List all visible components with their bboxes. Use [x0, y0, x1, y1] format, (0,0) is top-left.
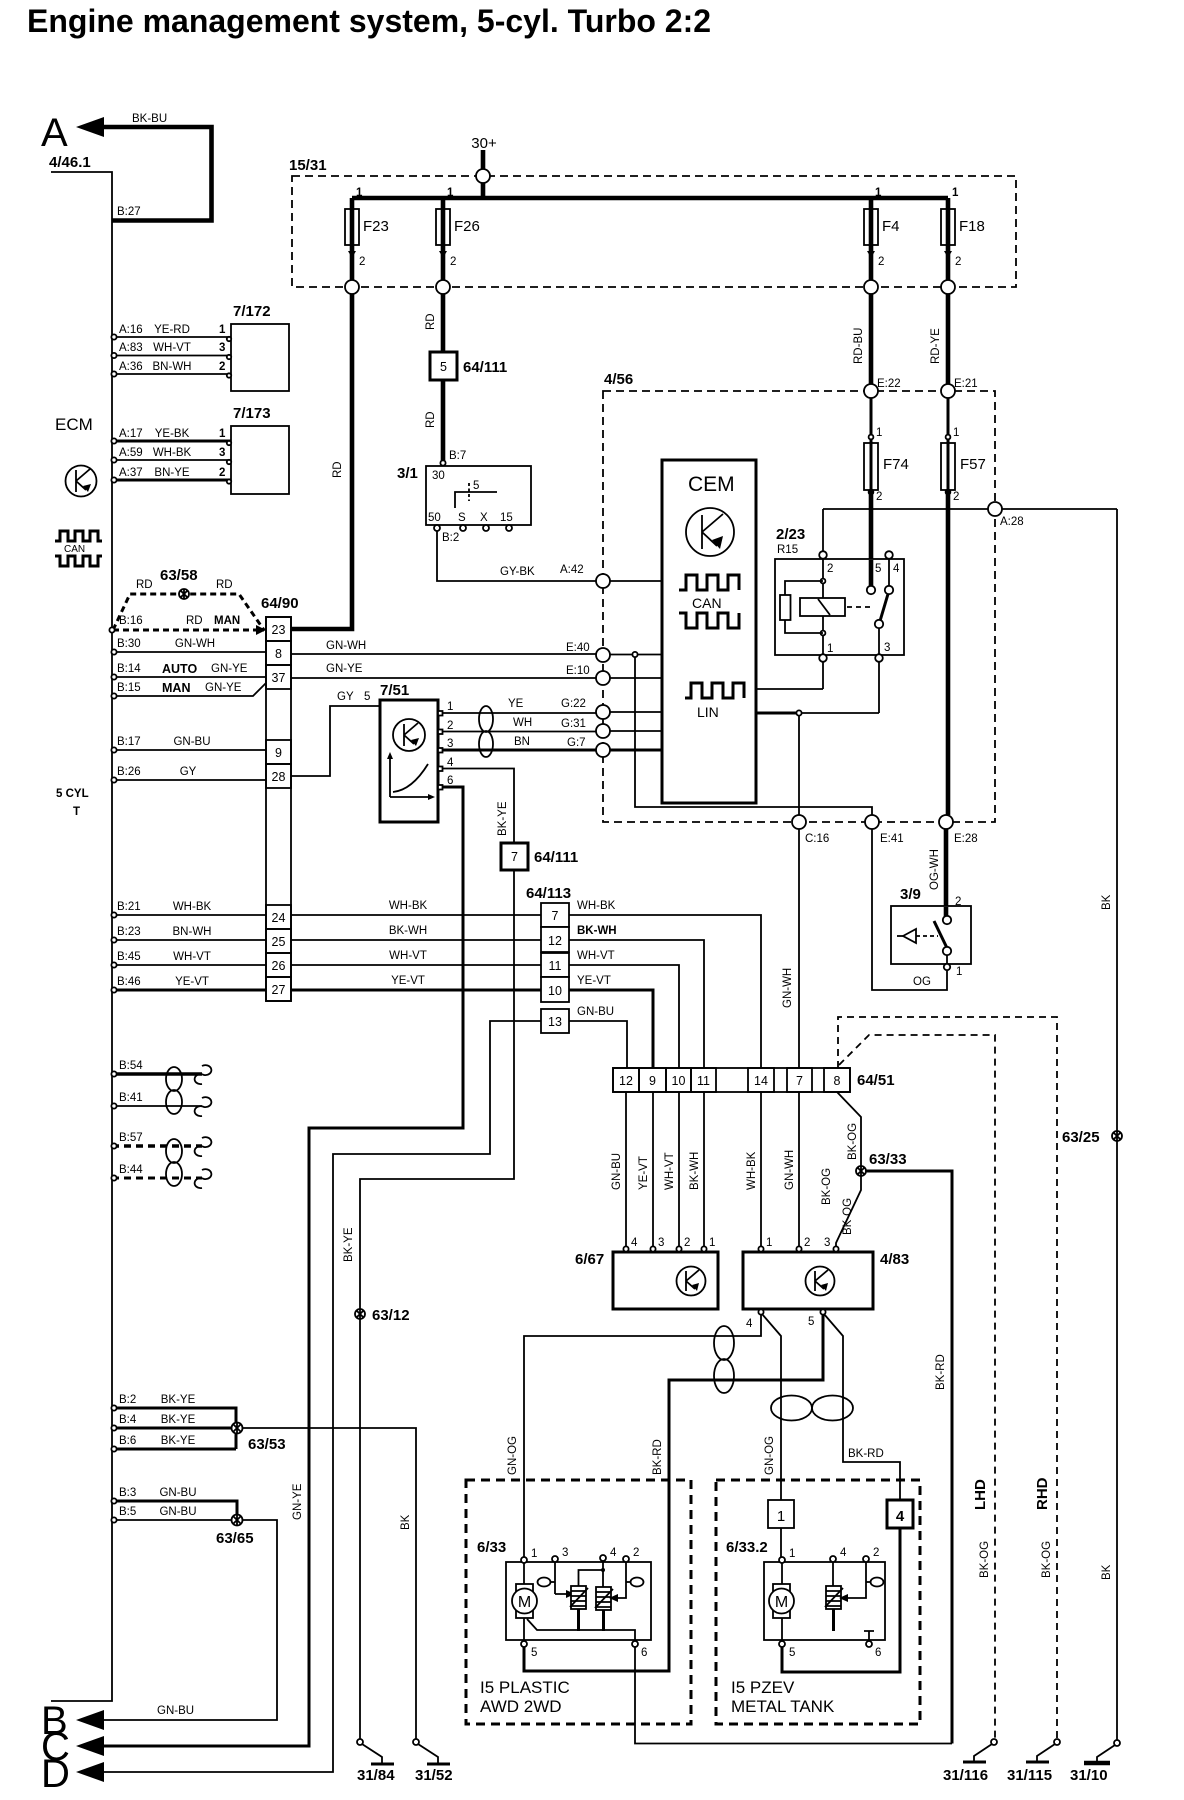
- svg-text:11: 11: [549, 959, 562, 973]
- svg-text:C:16: C:16: [805, 833, 829, 845]
- node C:16: [792, 815, 806, 829]
- wire B:15 MAN GN-YE: [112, 683, 266, 696]
- connector 64/111 pin 7: [501, 843, 528, 870]
- node E:28: [939, 815, 953, 829]
- svg-text:2: 2: [804, 1237, 810, 1249]
- svg-text:31/115: 31/115: [1007, 1767, 1052, 1784]
- svg-text:S: S: [458, 512, 466, 524]
- 6/33 fuel pump motor: [523, 1563, 525, 1584]
- wire GN-BU 64/113 pin13 to 64/51 pin12: [569, 1021, 627, 1068]
- wire YE-VT 64/90 pin27 to 64/113 pin10: [291, 989, 541, 992]
- relay pin 1: [819, 654, 827, 662]
- wire BK-RD box4 to 6/33.2 pin5: [782, 1528, 900, 1672]
- wire BK-YE 64/111 to splice 63/12 to ground: [360, 870, 514, 1742]
- ECM main line: [51, 172, 112, 1701]
- wire A:16 YE-RD pin 1: [112, 336, 231, 338]
- wire B:44 dashed: [112, 1177, 202, 1180]
- svg-text:28: 28: [272, 770, 286, 784]
- svg-text:1: 1: [956, 966, 962, 978]
- wire BK-WH 64/90 pin25 to 64/113 pin12: [291, 939, 541, 941]
- svg-text:63/25: 63/25: [1062, 1129, 1100, 1146]
- svg-text:G:31: G:31: [561, 718, 586, 730]
- 64/51 pin 10: [666, 1068, 691, 1092]
- wire GN-YE 7/51 pin6 to C arrow: [104, 787, 463, 1746]
- 64/113 pin 13: [541, 1009, 569, 1033]
- svg-text:CEM: CEM: [688, 473, 735, 496]
- wire BK-BU B:27: [102, 127, 212, 221]
- svg-text:1: 1: [219, 428, 226, 440]
- svg-text:BK-BU: BK-BU: [132, 113, 167, 125]
- svg-text:4/56: 4/56: [604, 371, 633, 388]
- svg-text:63/58: 63/58: [160, 567, 198, 584]
- 64/113 pin 11: [541, 953, 569, 977]
- svg-text:BK-RD: BK-RD: [652, 1439, 664, 1475]
- svg-text:WH: WH: [513, 717, 532, 729]
- svg-text:5: 5: [808, 1316, 814, 1328]
- svg-text:F23: F23: [363, 218, 389, 235]
- twisted pair horizontal: [771, 1396, 853, 1421]
- dashed link 64/51 to LHD line: [839, 1035, 995, 1742]
- wire A:59 WH-BK pin 3: [112, 459, 231, 461]
- svg-text:A:36: A:36: [119, 361, 143, 373]
- wire A:83 WH-VT pin 3: [112, 355, 231, 357]
- control unit CEM: [662, 460, 756, 803]
- svg-text:5: 5: [473, 480, 479, 492]
- svg-text:T: T: [73, 806, 80, 818]
- svg-text:3: 3: [658, 1237, 664, 1249]
- svg-text:Engine management system, 5-cy: Engine management system, 5-cyl. Turbo 2…: [27, 3, 711, 39]
- twisted pair B:57/B:44: [166, 1139, 182, 1186]
- svg-text:BK: BK: [1101, 894, 1113, 910]
- wire BK right side down to ground: [1116, 509, 1118, 1743]
- svg-text:23: 23: [272, 623, 286, 637]
- 6/33 pin 6: [632, 1641, 638, 1647]
- wire YE 7/51 pin1 to G:22: [443, 712, 597, 714]
- svg-text:30: 30: [432, 470, 445, 482]
- fuse F26: [441, 198, 446, 280]
- svg-text:A:83: A:83: [119, 342, 143, 354]
- svg-text:WH-VT: WH-VT: [153, 342, 191, 354]
- svg-text:F74: F74: [883, 456, 909, 473]
- ECM CAN symbol: [55, 531, 102, 566]
- svg-text:BK-YE: BK-YE: [161, 1414, 196, 1426]
- svg-text:E:10: E:10: [566, 665, 590, 677]
- 64/51 pin 14: [748, 1068, 774, 1092]
- svg-text:3: 3: [884, 642, 890, 654]
- svg-text:31/84: 31/84: [357, 1767, 395, 1784]
- 6/33.2 fuel pump motor: [781, 1563, 783, 1584]
- svg-text:8: 8: [834, 1074, 841, 1088]
- 6/33 motor to pin5 and pin6: [524, 1618, 635, 1643]
- splice 63/53: [232, 1423, 243, 1434]
- connector 64/111 pin 5: [430, 352, 457, 380]
- svg-text:63/33: 63/33: [869, 1151, 907, 1168]
- svg-text:AUTO: AUTO: [162, 662, 197, 676]
- node E:21: [941, 384, 955, 398]
- svg-text:64/111: 64/111: [463, 359, 507, 376]
- svg-text:3: 3: [219, 447, 225, 459]
- wire B:57 dashed: [112, 1144, 202, 1148]
- fuse F74: [870, 398, 873, 490]
- svg-text:64/111: 64/111: [534, 849, 578, 866]
- svg-text:1: 1: [953, 427, 959, 439]
- junction on E:40 wire: [632, 652, 637, 657]
- 6/33 level sensor 1: [555, 1562, 567, 1594]
- 64/90 pin 9: [266, 740, 291, 764]
- CEM CAN symbol: [679, 575, 739, 628]
- svg-text:1: 1: [447, 701, 453, 713]
- relay switch: [885, 586, 893, 594]
- svg-text:3: 3: [562, 1547, 568, 1559]
- wire B:14 AUTO GN-YE: [112, 676, 266, 678]
- 64/51 pin 11: [691, 1068, 716, 1092]
- wire RD 64/111 to 3/1 B:7: [441, 380, 446, 464]
- 64/51 pin 9: [639, 1068, 666, 1092]
- wire 6/33 pin6 to BK-RD return: [635, 1647, 952, 1744]
- 6/33.2 pickup nozzle: [871, 1578, 884, 1587]
- svg-text:1: 1: [447, 187, 454, 199]
- svg-text:B:15: B:15: [117, 682, 141, 694]
- svg-text:9: 9: [275, 746, 282, 760]
- svg-text:2: 2: [876, 491, 882, 503]
- splice 63/58 and dashed RD wires: [113, 594, 264, 630]
- svg-text:RD-BU: RD-BU: [853, 328, 865, 364]
- wire WH-BK 64/51 pin14 to 4/83 pin1: [760, 1092, 762, 1246]
- node E:41: [865, 815, 879, 829]
- svg-text:BN-WH: BN-WH: [173, 926, 212, 938]
- wire CEM to relay pin1: [756, 688, 823, 690]
- svg-text:YE-BK: YE-BK: [155, 428, 190, 440]
- 6/33.2 inner box: [764, 1562, 885, 1640]
- svg-text:G:7: G:7: [567, 737, 586, 749]
- 64/51 pin 8: [824, 1068, 850, 1092]
- svg-text:9: 9: [649, 1074, 656, 1088]
- svg-text:OG-WH: OG-WH: [929, 849, 941, 890]
- svg-text:6: 6: [641, 1647, 647, 1659]
- wire A:36 BN-WH pin 2: [112, 373, 231, 375]
- svg-text:7/173: 7/173: [233, 405, 271, 422]
- svg-text:63/65: 63/65: [216, 1530, 254, 1547]
- 64/90 pin 24: [266, 905, 291, 929]
- 6/33 right pickup nozzle: [631, 1578, 644, 1587]
- 3/9 pin 1: [944, 964, 950, 970]
- svg-text:1: 1: [952, 187, 959, 199]
- wire GN-OG 4/83 pin4 to 6/33 pin1: [524, 1315, 761, 1558]
- svg-text:B:21: B:21: [117, 901, 141, 913]
- svg-text:G:22: G:22: [561, 698, 586, 710]
- 6/33 left pickup nozzle: [538, 1578, 551, 1587]
- svg-text:7: 7: [552, 909, 559, 923]
- svg-text:BK-YE: BK-YE: [343, 1227, 355, 1262]
- wire GY 64/90 pin28 to 7/51 pin5: [291, 706, 380, 776]
- svg-text:M: M: [775, 1594, 788, 1611]
- wire B:5 GN-BU: [112, 1519, 237, 1521]
- svg-text:31/10: 31/10: [1070, 1767, 1108, 1784]
- relay pin 5: [867, 586, 875, 594]
- 6/33.2 pin 4: [830, 1556, 836, 1562]
- 6/33 pin 5: [521, 1641, 527, 1647]
- svg-text:2: 2: [878, 256, 884, 268]
- svg-text:B:41: B:41: [119, 1092, 143, 1104]
- svg-text:25: 25: [272, 935, 286, 949]
- wire A:28 horizontal: [823, 508, 1117, 510]
- svg-text:METAL TANK: METAL TANK: [731, 1697, 835, 1716]
- svg-text:14: 14: [754, 1074, 768, 1088]
- wire BK-WH 64/51 pin11 to 6/67 pin1: [703, 1092, 705, 1246]
- svg-text:RD: RD: [186, 615, 203, 627]
- svg-text:B:2: B:2: [442, 532, 459, 544]
- svg-text:GY: GY: [337, 691, 354, 703]
- svg-text:R15: R15: [777, 544, 798, 556]
- svg-text:CAN: CAN: [64, 544, 85, 555]
- ECM control-unit symbol: [66, 466, 97, 497]
- svg-text:WH-VT: WH-VT: [173, 951, 211, 963]
- svg-text:2: 2: [359, 256, 365, 268]
- svg-text:GN-BU: GN-BU: [577, 1006, 614, 1018]
- wire BK splice 63/53 to ground 31/52: [242, 1428, 416, 1742]
- svg-text:GN-BU: GN-BU: [611, 1153, 623, 1190]
- twisted pair B:54/B:41: [166, 1067, 182, 1114]
- relay coil: [822, 559, 824, 655]
- 64/90 pin 37: [266, 665, 291, 689]
- svg-text:B:30: B:30: [117, 638, 141, 650]
- fuel pump assembly 6/33 dashed box: [466, 1480, 691, 1724]
- svg-text:BK: BK: [1101, 1564, 1113, 1580]
- svg-text:A:17: A:17: [119, 428, 143, 440]
- svg-text:B:45: B:45: [117, 951, 141, 963]
- wire LIN output: [756, 712, 799, 715]
- 6/33 pin 1: [521, 1557, 527, 1563]
- svg-text:GN-YE: GN-YE: [292, 1483, 304, 1520]
- wire WH-VT 64/90 pin26 to 64/113 pin11: [291, 964, 541, 966]
- svg-text:63/53: 63/53: [248, 1436, 286, 1453]
- svg-text:26: 26: [272, 959, 286, 973]
- wire GN-YE 64/90 pin37 to E:10: [291, 677, 596, 679]
- svg-text:BK-WH: BK-WH: [389, 925, 427, 937]
- svg-text:2: 2: [633, 1547, 639, 1559]
- svg-text:4/46.1: 4/46.1: [49, 154, 91, 171]
- svg-text:2: 2: [873, 1547, 879, 1559]
- svg-text:7/51: 7/51: [380, 682, 409, 699]
- svg-text:B:4: B:4: [119, 1414, 137, 1426]
- wire RD F23 to 64/90 pin 23: [291, 294, 352, 629]
- wire OG-WH E:28 to 3/9: [944, 829, 949, 917]
- svg-text:BK-WH: BK-WH: [577, 925, 617, 937]
- svg-text:GN-YE: GN-YE: [205, 682, 242, 694]
- svg-text:4: 4: [631, 1237, 638, 1249]
- svg-text:2: 2: [447, 720, 453, 732]
- wire RD-BU F4 to E:22: [869, 294, 874, 384]
- svg-text:F57: F57: [960, 456, 986, 473]
- svg-text:WH-BK: WH-BK: [153, 447, 192, 459]
- svg-text:BK-RD: BK-RD: [848, 1448, 884, 1460]
- svg-text:1: 1: [875, 187, 882, 199]
- svg-text:YE: YE: [508, 698, 524, 710]
- svg-text:6/33: 6/33: [477, 1539, 506, 1556]
- svg-text:YE-VT: YE-VT: [175, 976, 209, 988]
- svg-text:4: 4: [893, 563, 900, 575]
- wire WH 7/51 pin2 to G:31: [443, 731, 597, 733]
- wire A:37 BN-YE pin 2: [112, 479, 231, 482]
- 64/51 pin 7: [787, 1068, 812, 1092]
- svg-text:GY: GY: [180, 766, 197, 778]
- 64/90 pin 27: [266, 977, 291, 1001]
- svg-text:4: 4: [610, 1547, 617, 1559]
- svg-text:E:28: E:28: [954, 833, 978, 845]
- svg-text:63/12: 63/12: [372, 1307, 410, 1324]
- svg-text:WH-BK: WH-BK: [389, 900, 428, 912]
- 64/113 pin 10: [541, 977, 569, 1002]
- svg-text:A:28: A:28: [1000, 516, 1024, 528]
- wire GN-BU 63/65 to B arrow: [104, 1520, 277, 1720]
- svg-text:A:37: A:37: [119, 467, 143, 479]
- 6/33 level sensor 2: [601, 1568, 605, 1572]
- svg-text:2/23: 2/23: [776, 526, 805, 543]
- svg-text:OG: OG: [913, 976, 931, 988]
- relay pin 4: [885, 551, 893, 559]
- 6/33.2 pin 1: [779, 1557, 785, 1563]
- svg-text:WH-BK: WH-BK: [746, 1151, 758, 1190]
- svg-text:5: 5: [789, 1647, 795, 1659]
- svg-text:15/31: 15/31: [289, 157, 327, 174]
- svg-text:B:23: B:23: [117, 926, 141, 938]
- svg-text:6/67: 6/67: [575, 1251, 604, 1268]
- svg-text:BK-YE: BK-YE: [161, 1394, 196, 1406]
- svg-text:F18: F18: [959, 218, 985, 235]
- svg-text:BK-OG: BK-OG: [821, 1168, 833, 1205]
- svg-text:YE-VT: YE-VT: [638, 1156, 650, 1190]
- splice 63/65: [232, 1515, 243, 1526]
- wire E:40 branch to E:41: [635, 657, 872, 815]
- svg-text:CAN: CAN: [692, 595, 722, 611]
- ground 31/116: [963, 1739, 997, 1762]
- svg-text:MAN: MAN: [214, 615, 240, 627]
- relay pin 3: [875, 654, 883, 662]
- svg-text:B:46: B:46: [117, 976, 141, 988]
- svg-text:E:41: E:41: [880, 833, 904, 845]
- wire B:21 WH-BK: [112, 914, 266, 916]
- svg-text:7: 7: [511, 850, 518, 864]
- wire B:26 GY: [112, 779, 266, 781]
- svg-text:5: 5: [364, 691, 370, 703]
- svg-text:11: 11: [697, 1074, 710, 1088]
- svg-text:4/83: 4/83: [880, 1251, 909, 1268]
- svg-text:BK-OG: BK-OG: [979, 1541, 991, 1578]
- svg-text:MAN: MAN: [162, 681, 190, 695]
- 7/51 graph symbol: [387, 752, 435, 800]
- svg-text:RD: RD: [425, 313, 437, 330]
- 6/33 inner box: [506, 1562, 651, 1640]
- svg-text:GN-WH: GN-WH: [326, 640, 366, 652]
- svg-text:E:40: E:40: [566, 642, 590, 654]
- 64/113 pin 7: [541, 903, 569, 927]
- svg-text:B:44: B:44: [119, 1164, 143, 1176]
- svg-text:ECM: ECM: [55, 415, 93, 434]
- svg-text:A:42: A:42: [560, 564, 584, 576]
- svg-text:B:26: B:26: [117, 766, 141, 778]
- 64/51 pin 12: [613, 1068, 639, 1092]
- 6/33.2 pin 2: [863, 1556, 869, 1562]
- svg-text:6/33.2: 6/33.2: [726, 1539, 768, 1556]
- svg-text:F26: F26: [454, 218, 480, 235]
- wire B:30 GN-WH: [112, 651, 266, 653]
- svg-text:BK-RD: BK-RD: [935, 1354, 947, 1390]
- svg-text:2: 2: [955, 896, 961, 908]
- 4/83 pin stubs bottom: [758, 1309, 763, 1314]
- wire BK-OG splice to 4/83 pin3: [836, 1176, 861, 1246]
- svg-text:1: 1: [876, 427, 882, 439]
- svg-text:4: 4: [896, 1508, 905, 1525]
- svg-text:BK-OG: BK-OG: [1041, 1541, 1053, 1578]
- svg-text:4: 4: [840, 1547, 847, 1559]
- svg-text:1: 1: [766, 1237, 772, 1249]
- 6/33 pin 3: [552, 1556, 558, 1562]
- node E:22: [864, 384, 878, 398]
- svg-text:F4: F4: [882, 218, 900, 235]
- wire YE-VT 64/113 pin10 to 64/51 pin9: [569, 990, 653, 1068]
- svg-text:7/172: 7/172: [233, 303, 271, 320]
- wire B:3 GN-BU: [112, 1501, 237, 1520]
- svg-text:5: 5: [440, 360, 447, 374]
- wire BK-RD 4/83 pin5 to RHD box 4: [824, 1314, 900, 1500]
- svg-text:I5 PZEV: I5 PZEV: [731, 1678, 795, 1697]
- svg-text:1: 1: [777, 1508, 785, 1525]
- svg-text:GN-WH: GN-WH: [175, 638, 215, 650]
- svg-text:B:6: B:6: [119, 1435, 136, 1447]
- svg-text:30+: 30+: [471, 135, 497, 152]
- svg-text:2: 2: [827, 563, 833, 575]
- wire BK-WH 64/113 pin12 to 64/51 pin11: [569, 940, 704, 1068]
- splice 63/33: [856, 1166, 866, 1176]
- svg-text:1: 1: [789, 1548, 795, 1560]
- ground 31/84: [357, 1739, 394, 1764]
- svg-text:64/51: 64/51: [857, 1072, 895, 1089]
- svg-text:RD: RD: [136, 579, 153, 591]
- 6/33.2 pin 6 stub: [864, 1631, 874, 1643]
- wire F57 to E:28: [946, 490, 951, 815]
- wire GN-BU 64/51 pin12 to 6/67 pin4: [625, 1092, 627, 1246]
- node A:42: [596, 574, 610, 588]
- svg-text:31/52: 31/52: [415, 1767, 453, 1784]
- ground 31/10: [1084, 1740, 1120, 1763]
- splice 63/25: [1112, 1131, 1122, 1141]
- svg-text:50: 50: [428, 512, 441, 524]
- twisted pair vertical: [714, 1326, 734, 1393]
- connector box 4 (RHD): [887, 1500, 913, 1528]
- svg-text:B:7: B:7: [449, 450, 466, 462]
- wire BK-RD splice 63/33 to pump return: [866, 1171, 952, 1744]
- svg-text:10: 10: [672, 1074, 686, 1088]
- svg-text:WH-BK: WH-BK: [577, 900, 616, 912]
- CEM LIN symbol: [685, 683, 744, 698]
- svg-text:12: 12: [619, 1074, 633, 1088]
- wire WH-BK 64/113 pin7 to 64/51 pin14: [569, 915, 761, 1068]
- svg-text:BK-OG: BK-OG: [842, 1198, 854, 1235]
- svg-text:YE-VT: YE-VT: [577, 975, 611, 987]
- wire BK-OG 64/51 pin8 to splice 63/33: [837, 1092, 861, 1166]
- svg-text:B:5: B:5: [119, 1506, 136, 1518]
- ground 31/52: [413, 1739, 450, 1764]
- svg-text:8: 8: [275, 647, 282, 661]
- wire B:45 WH-VT: [112, 964, 266, 966]
- svg-text:GY-BK: GY-BK: [500, 566, 535, 578]
- svg-text:WH-VT: WH-VT: [664, 1152, 676, 1190]
- svg-text:A:16: A:16: [119, 324, 143, 336]
- svg-text:YE-VT: YE-VT: [391, 975, 425, 987]
- wire B:23 BN-WH: [112, 939, 266, 941]
- wire BK-RD 4/83 pin5 to 6/33 pin5: [524, 1315, 823, 1671]
- 64/90 pin 25: [266, 929, 291, 953]
